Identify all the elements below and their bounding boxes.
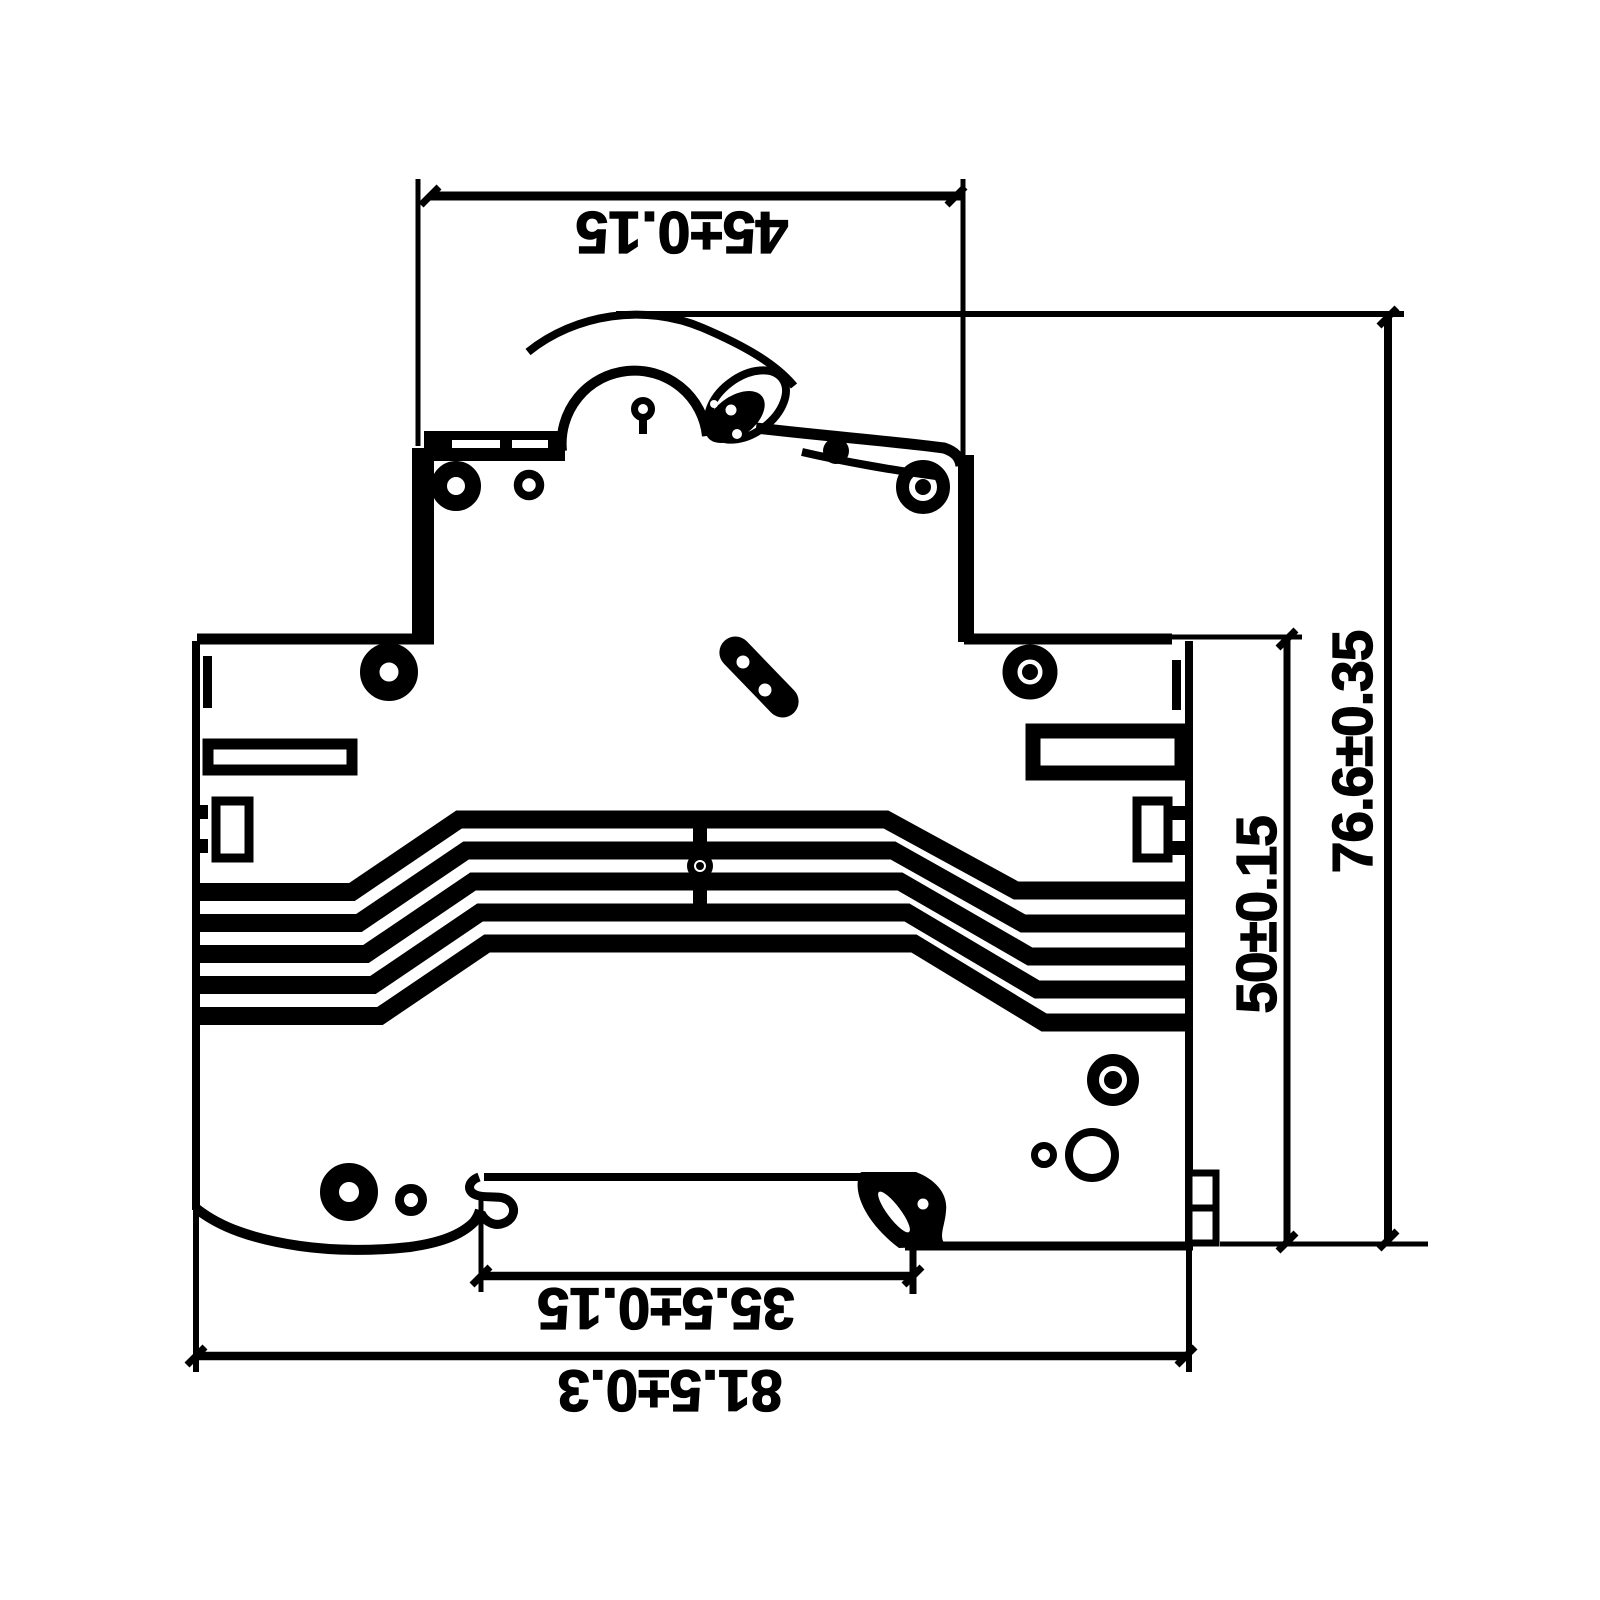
- svg-text:35.5±0.15: 35.5±0.15: [537, 1276, 795, 1341]
- svg-text:76.6±0.35: 76.6±0.35: [1321, 630, 1385, 873]
- svg-text:50±0.15: 50±0.15: [1225, 816, 1289, 1014]
- svg-text:45±0.15: 45±0.15: [576, 199, 789, 265]
- svg-text:81.5±0.3: 81.5±0.3: [557, 1358, 782, 1423]
